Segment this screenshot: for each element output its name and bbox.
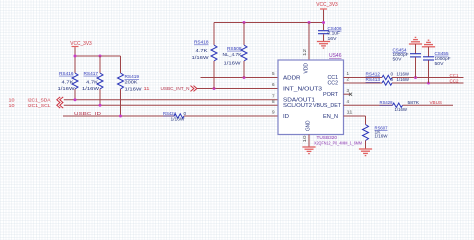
- svg-text:0: 0: [391, 72, 394, 78]
- RS508 label: [227, 46, 242, 52]
- wire CC1 left: [344, 77, 383, 79]
- pin name ID: [283, 114, 289, 120]
- junction CC1-CS454: [414, 76, 417, 79]
- svg-text:5: 5: [272, 71, 275, 76]
- wire EN_N horizontal: [344, 115, 366, 117]
- wire GND lead: [308, 135, 310, 147]
- resistor RS424: [174, 114, 184, 118]
- RS428 value 1/16W: [395, 107, 408, 113]
- capacitor CS406: [318, 31, 329, 34]
- pin number 10: [302, 135, 307, 143]
- svg-text:INT_N/OUT3: INT_N/OUT3: [283, 87, 322, 93]
- svg-text:4.7K: 4.7K: [196, 48, 209, 54]
- pin number 11: [347, 110, 354, 115]
- svg-text:4: 4: [347, 99, 350, 104]
- svg-text:ID: ID: [283, 114, 289, 120]
- pin name INT_N/OUT3: [283, 87, 322, 93]
- junction rail-RS508: [243, 21, 246, 24]
- svg-text:I2C1_SDA: I2C1_SDA: [28, 98, 52, 104]
- CS455 value 50V: [435, 61, 445, 67]
- svg-text:0.1uF: 0.1uF: [328, 31, 341, 37]
- svg-text:CC2: CC2: [328, 81, 339, 87]
- svg-text:7: 7: [272, 94, 275, 99]
- net USBC_ID: [74, 111, 102, 117]
- svg-text:I2C1_SCL: I2C1_SCL: [28, 103, 51, 109]
- svg-text:11: 11: [144, 86, 150, 92]
- svg-text:RS416: RS416: [59, 71, 74, 77]
- svg-text:CC1: CC1: [450, 73, 459, 79]
- wire VCC left vertical: [74, 48, 76, 74]
- resistor RS412: [382, 75, 392, 79]
- wire CS455 top lead: [428, 47, 430, 57]
- wire RS417 bottom lead: [99, 89, 101, 105]
- svg-text:1/16W: 1/16W: [192, 55, 210, 61]
- svg-text:1/16W: 1/16W: [397, 77, 410, 83]
- net I2C1_SDA: [28, 98, 52, 104]
- svg-text:RS428: RS428: [380, 100, 393, 106]
- wire VCC top vertical: [323, 10, 325, 30]
- resistor RS413: [382, 81, 392, 85]
- junction rail-CS406: [322, 21, 325, 24]
- svg-text:1/16W: 1/16W: [58, 86, 76, 92]
- resistor RS417: [97, 73, 103, 89]
- resistor RS418: [211, 45, 217, 61]
- wire USBC_ID left: [63, 115, 174, 117]
- svg-text:RS413: RS413: [366, 77, 381, 83]
- RS412 value 1/16W: [397, 72, 410, 78]
- svg-text:10: 10: [9, 103, 15, 109]
- svg-text:1/16W: 1/16W: [395, 107, 408, 113]
- RS428 label: [380, 100, 393, 106]
- wire EN_N vertical: [365, 116, 367, 125]
- ground (RS607): [359, 149, 372, 156]
- ground (CS454, inverted): [409, 37, 422, 44]
- pin name SCL/OUT2: [283, 103, 312, 109]
- svg-text:RS508: RS508: [227, 46, 242, 52]
- svg-text:EN_N: EN_N: [323, 114, 338, 120]
- svg-text:NL_4.7K: NL_4.7K: [223, 52, 243, 58]
- RS413 value 0: [391, 77, 394, 83]
- resistor RS428: [393, 103, 403, 107]
- wire CC2 left: [344, 82, 383, 84]
- svg-text:GND: GND: [306, 121, 312, 132]
- svg-text:VCC_3V3: VCC_3V3: [70, 41, 92, 47]
- svg-text:1/16W: 1/16W: [125, 86, 143, 92]
- junction ADDR-RS508: [243, 76, 246, 79]
- wire VDD lead: [308, 23, 310, 61]
- RS417 value 4.7K: [86, 80, 99, 86]
- svg-text:USBC_INT_N: USBC_INT_N: [161, 86, 191, 92]
- pin name PORT: [323, 92, 339, 98]
- ground (US46 GND): [302, 147, 315, 154]
- pin number 6: [272, 82, 275, 87]
- RS413 label: [366, 77, 381, 83]
- svg-text:1: 1: [347, 71, 350, 76]
- RS418 value 4.7K: [196, 48, 209, 54]
- RS412 label: [366, 72, 381, 78]
- off-page connector I2C1_SCL: [57, 102, 63, 108]
- pin name CC1: [328, 75, 339, 81]
- RS419 value 200K: [125, 80, 139, 86]
- CS455 value 1000pF: [435, 56, 451, 62]
- junction SCL-RS417: [99, 104, 102, 107]
- wire RS418 top lead: [213, 23, 215, 46]
- svg-text:12: 12: [302, 48, 307, 56]
- RS607 label: [375, 125, 388, 131]
- ground (CS455, inverted): [422, 40, 435, 47]
- pin number 5: [272, 71, 275, 76]
- RS607 value 1/16W: [375, 133, 388, 139]
- svg-text:1/16W: 1/16W: [375, 133, 388, 139]
- CS406 label: [328, 26, 342, 32]
- pin name VBUS_DET: [313, 103, 342, 109]
- svg-text:RS419: RS419: [125, 74, 140, 80]
- svg-text:PORT: PORT: [323, 92, 339, 98]
- svg-text:1/16W: 1/16W: [224, 61, 242, 67]
- pin number 9: [272, 110, 275, 115]
- RS424 value 0: [184, 111, 187, 117]
- RS424 label: [163, 111, 176, 117]
- wire VCC top rail: [214, 22, 324, 24]
- svg-text:RS412: RS412: [366, 72, 381, 78]
- svg-text:VDD: VDD: [304, 63, 310, 74]
- pin number 2: [347, 77, 350, 82]
- wire ADDR: [201, 77, 279, 79]
- svg-text:1/16W: 1/16W: [82, 86, 100, 92]
- op-amp US46 box: [278, 60, 344, 135]
- wire CC2 right: [392, 82, 464, 84]
- RS424 value 1/16W: [171, 117, 185, 123]
- svg-text:RS417: RS417: [84, 71, 99, 77]
- svg-text:VBUS_DET: VBUS_DET: [313, 103, 342, 109]
- svg-text:6: 6: [272, 82, 275, 87]
- RS413 value 1/16W: [397, 77, 410, 83]
- svg-text:3: 3: [347, 88, 350, 93]
- ground (CS406): [317, 42, 330, 49]
- svg-text:1/16W: 1/16W: [397, 72, 410, 78]
- pin name VDD: [304, 63, 310, 74]
- pin number 7: [272, 94, 275, 99]
- wire CS454 bottom lead: [415, 57, 417, 77]
- CS454 value 1000pF: [393, 52, 409, 58]
- wire RS508 top lead: [243, 23, 245, 46]
- svg-text:200K: 200K: [125, 80, 139, 86]
- junction rail-RS416: [74, 55, 77, 58]
- svg-text:SCL/OUT2: SCL/OUT2: [283, 103, 312, 109]
- svg-text:1/16W: 1/16W: [171, 117, 185, 123]
- junction INT-RS418: [213, 87, 216, 90]
- svg-text:CS455: CS455: [435, 51, 449, 57]
- pin number 4: [347, 99, 350, 104]
- svg-text:10: 10: [302, 135, 307, 143]
- svg-text:8: 8: [272, 99, 275, 104]
- wire PORT stub: [344, 93, 351, 95]
- svg-text:1000pF: 1000pF: [435, 56, 451, 62]
- svg-text:4.7K: 4.7K: [86, 80, 99, 86]
- net I2C1_SCL: [28, 103, 51, 109]
- RS607 value 1K: [375, 129, 382, 135]
- power symbol VCC_3V3 (left): [70, 41, 92, 48]
- svg-text:50V: 50V: [393, 57, 403, 63]
- junction rail-VDD: [308, 21, 311, 24]
- capacitor CS455: [423, 57, 434, 60]
- junction SDA-RS416: [74, 98, 77, 101]
- svg-text:VBUS: VBUS: [430, 100, 443, 106]
- pin number 12: [302, 48, 307, 56]
- svg-text:US46: US46: [329, 53, 342, 59]
- wire VCC left rail: [75, 55, 121, 57]
- resistor RS508: [241, 45, 247, 61]
- svg-text:RS424: RS424: [163, 111, 176, 117]
- off-page connector I2C1_SDA: [57, 97, 63, 103]
- wire RS417 top lead: [99, 56, 101, 73]
- RS428 value 587K: [408, 100, 420, 106]
- svg-text:11: 11: [347, 110, 354, 115]
- wire CC1 right: [392, 77, 464, 79]
- resistor RS416: [72, 73, 78, 89]
- pin number 8: [272, 99, 275, 104]
- wire RS418 bottom lead: [213, 61, 215, 89]
- wire SDA: [64, 99, 278, 101]
- svg-text:VCC_3V3: VCC_3V3: [316, 2, 338, 8]
- off-page ref 10 (SCL): [9, 103, 15, 109]
- CS406 value 0.1uF: [328, 31, 341, 37]
- CS454 value 50V: [393, 57, 403, 63]
- off-page connector USBC_INT_N: [191, 86, 197, 92]
- net VBUS: [430, 100, 443, 106]
- CS454 label: [393, 48, 407, 54]
- US46 footprint X2QFN12: [314, 141, 362, 146]
- RS416 value 4.7K: [62, 80, 75, 86]
- svg-text:RS418: RS418: [194, 40, 209, 46]
- svg-text:CC2: CC2: [450, 79, 459, 85]
- CS455 label: [435, 51, 449, 57]
- US46 value TUSB320: [317, 135, 338, 141]
- off-page ref 10 (SDA): [9, 98, 15, 104]
- RS419 label: [125, 74, 140, 80]
- resistor RS419: [118, 73, 124, 89]
- wire SCL: [64, 104, 278, 106]
- wire USBC_INT_N: [197, 88, 278, 90]
- RS417 label: [84, 71, 99, 77]
- pin number 3: [347, 88, 350, 93]
- pin number 1: [347, 71, 350, 76]
- RS417 value 1/16W: [82, 86, 100, 92]
- net USBC_INT_N: [161, 86, 191, 92]
- pin name CC2: [328, 81, 339, 87]
- svg-text:50V: 50V: [435, 61, 445, 67]
- svg-text:10: 10: [9, 98, 15, 104]
- wire RS607 bottom lead: [365, 141, 367, 150]
- RS418 value 1/16W: [192, 55, 210, 61]
- wire RS416 bottom lead: [74, 89, 76, 100]
- wire CS454 top lead: [415, 44, 417, 54]
- wire VBUS_DET right: [403, 104, 454, 106]
- wire CS406 bottom lead: [323, 34, 325, 41]
- wire RS419 bottom lead: [120, 89, 122, 116]
- net CC1: [450, 73, 459, 79]
- capacitor CS454: [410, 54, 421, 57]
- wire RS419 top lead: [120, 56, 122, 73]
- RS419 value 1/16W: [125, 86, 143, 92]
- no-connect X (PORT): [349, 93, 352, 96]
- junction rail-RS417: [99, 55, 102, 58]
- RS416 value 1/16W: [58, 86, 76, 92]
- pin name EN_N: [323, 114, 338, 120]
- power symbol VCC_3V3 (top): [316, 2, 338, 11]
- svg-text:4.7K: 4.7K: [62, 80, 75, 86]
- off-page ref 11: [144, 86, 150, 92]
- RS508 value NL_4.7K: [223, 52, 243, 58]
- RS418 label: [194, 40, 209, 46]
- CS406 value 16V: [328, 36, 338, 42]
- US46 label: [329, 53, 342, 59]
- RS416 label: [59, 71, 74, 77]
- wire USBC_ID right: [184, 115, 278, 117]
- junction CC2-CS455: [427, 82, 430, 85]
- pin name ADDR: [283, 75, 301, 81]
- resistor RS607: [363, 125, 369, 141]
- wire CS455 bottom lead: [428, 61, 430, 84]
- svg-text:X2QFN12_P0_4MM_1_6MM: X2QFN12_P0_4MM_1_6MM: [314, 141, 362, 146]
- pin name GND: [306, 121, 312, 132]
- RS508 value 1/16W: [224, 61, 242, 67]
- svg-text:0: 0: [391, 77, 394, 83]
- wire VBUS_DET left: [344, 104, 393, 106]
- wire RS508 bottom lead: [243, 61, 245, 78]
- pin name SDA/OUT1: [283, 97, 315, 103]
- svg-text:ADDR: ADDR: [283, 75, 301, 81]
- net CC2: [450, 79, 459, 85]
- junction ID-RS419: [119, 115, 122, 118]
- svg-text:9: 9: [272, 110, 275, 115]
- RS412 value 0: [391, 72, 394, 78]
